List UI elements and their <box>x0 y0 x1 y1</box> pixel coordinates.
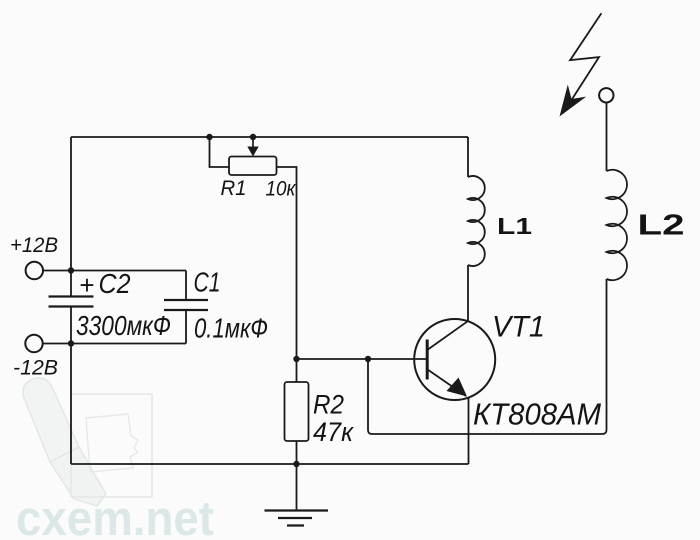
svg-text:0.1мкФ: 0.1мкФ <box>194 313 268 344</box>
inductor L1 <box>468 176 485 266</box>
svg-text:КТ808АМ: КТ808АМ <box>473 397 601 432</box>
wire: C1 bottom lead <box>185 310 187 344</box>
watermark graphic: ribbon shape <box>23 378 106 506</box>
watermark graphic: inner profile shape <box>86 414 138 472</box>
watermark graphic: rectangle outline <box>71 394 152 497</box>
svg-text:-12В: -12В <box>13 357 58 380</box>
terminal +12V <box>26 262 43 279</box>
junction dot wiper on top rail <box>250 134 256 140</box>
transistor VT1 circle <box>414 319 495 400</box>
wire: C1 top lead <box>185 271 187 301</box>
svg-text:R1: R1 <box>221 177 247 200</box>
terminal antenna <box>599 88 613 102</box>
junction dot base node at R2 top <box>293 356 299 362</box>
wire: left rail upper (top rail to C2) <box>70 137 72 296</box>
lightning discharge arrow <box>567 13 601 107</box>
wire: R1 right lead down to base node <box>277 167 297 382</box>
junction dot base-feedback node <box>365 356 371 362</box>
svg-text:+: + <box>79 270 94 300</box>
transistor VT1 emitter line <box>427 369 466 396</box>
wire: left rail lower (C2 to bottom rail) <box>70 307 72 464</box>
svg-text:R2: R2 <box>313 390 344 420</box>
svg-text:L1: L1 <box>497 213 532 239</box>
transistor VT1 collector line <box>427 321 468 350</box>
svg-text:cxem.net: cxem.net <box>16 492 214 540</box>
svg-text:47к: 47к <box>313 417 354 447</box>
svg-text:10к: 10к <box>266 178 297 201</box>
svg-text:C1: C1 <box>194 267 221 298</box>
wire: bottom rail <box>71 463 469 465</box>
wire: emitter down to bottom rail <box>468 397 470 464</box>
wire: R1 left lead <box>210 137 230 167</box>
wire: +12V feed <box>43 270 186 272</box>
potentiometer R1 body <box>229 157 277 176</box>
wire: base wire <box>297 358 428 360</box>
svg-text:VT1: VT1 <box>492 311 545 344</box>
svg-text:L2: L2 <box>638 210 685 242</box>
wire: feedback base to L2 bottom <box>368 279 607 434</box>
terminal -12V <box>25 335 42 352</box>
wire: L1 top lead from top rail <box>467 137 469 177</box>
resistor R2 body <box>285 382 309 441</box>
svg-text:3300мкФ: 3300мкФ <box>76 310 171 341</box>
wire: L1 bottom to collector <box>467 265 469 321</box>
junction dot R1 left on top rail <box>206 134 212 140</box>
wire: antenna terminal to L2 <box>606 103 608 172</box>
capacitor C1 plates <box>164 300 208 310</box>
transistor VT1 base bar <box>426 340 429 380</box>
ground <box>265 511 329 526</box>
svg-text:+12В: +12В <box>10 234 58 257</box>
lightning arrowhead <box>560 85 587 117</box>
inductor L2 <box>607 170 628 280</box>
junction dot bottom rail at ground <box>293 461 299 467</box>
wire: R2 bottom lead <box>296 441 298 464</box>
capacitor C2 plates <box>49 297 94 307</box>
wire: ground stub <box>296 464 298 510</box>
wire: top rail <box>71 136 468 138</box>
wire: -12V feed <box>43 343 186 345</box>
potentiometer R1 wiper arrow <box>252 137 254 147</box>
svg-text:C2: C2 <box>99 268 131 299</box>
junction dot +12V on left rail <box>68 267 74 273</box>
junction dot -12V on left rail <box>68 340 74 346</box>
transistor VT1 emitter arrowhead <box>447 378 468 397</box>
